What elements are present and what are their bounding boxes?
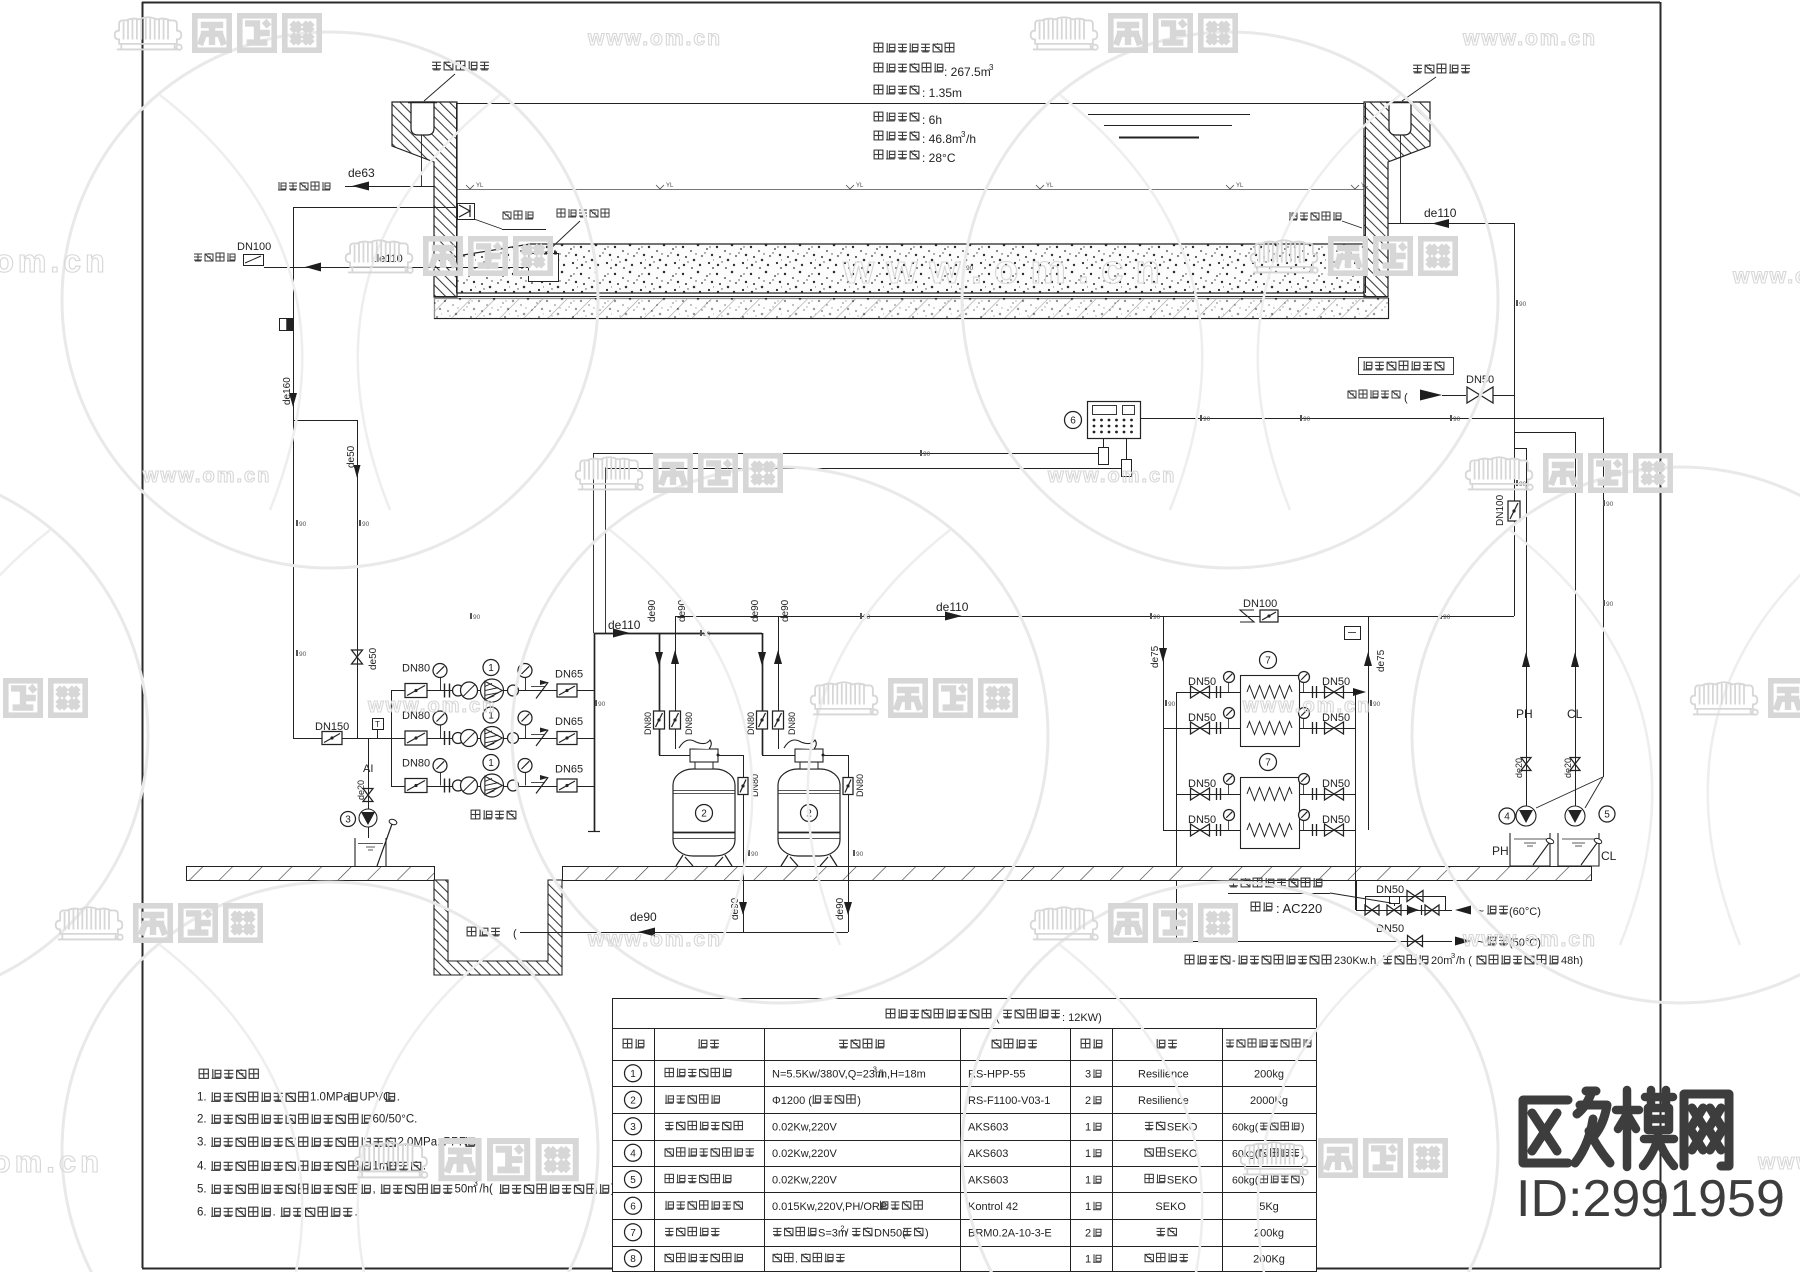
svg-text:90: 90 (1153, 614, 1161, 621)
svg-text:YL: YL (1236, 183, 1244, 189)
svg-text:90: 90 (1606, 501, 1614, 508)
water ripple marks (1088, 114, 1250, 116)
dosing point AI / de20 (368, 738, 370, 810)
PH solution tank (1510, 833, 1550, 866)
CL dosing riser (1575, 432, 1577, 806)
solenoid label (1229, 878, 1322, 887)
svg-text:0.02Kw,220V: 0.02Kw,220V (772, 1174, 837, 1186)
svg-text:www.om.cn: www.om.cn (1242, 695, 1371, 717)
svg-text:SEKO: SEKO (1155, 1201, 1186, 1213)
svg-text:.: . (397, 1091, 400, 1103)
svg-text:2: 2 (1085, 1227, 1091, 1239)
svg-text:1: 1 (1085, 1253, 1091, 1265)
blow-off outlet box on left wall (458, 204, 475, 220)
svg-text:DN50: DN50 (1466, 374, 1494, 386)
svg-text:(: ( (1404, 392, 1408, 404)
svg-text:DN80: DN80 (402, 663, 430, 675)
filter 1 supply pipe de90 (659, 633, 661, 755)
HX secondary manifolds (1163, 616, 1165, 830)
svg-text:www.om.cn: www.om.cn (587, 928, 722, 951)
circulation pump row 1 (391, 690, 594, 692)
svg-text:www.om.cn: www.om.cn (142, 465, 271, 487)
sand filter tank 2 (778, 769, 840, 856)
main suction line DN150 (293, 738, 391, 740)
left gutter drain stub (421, 135, 423, 186)
svg-text:DN50: DN50 (1322, 814, 1350, 826)
svg-text:3: 3 (345, 815, 351, 826)
svg-text:90: 90 (1519, 301, 1527, 308)
svg-text:de90: de90 (630, 910, 657, 924)
filter 1 backwash drain pipe (718, 755, 743, 757)
filter 1 return pipe de90 (675, 616, 677, 749)
pool drain pipe to sump y=207 (293, 207, 457, 209)
municipal supply riser to pool inlet (1514, 223, 1516, 616)
sump pit label (467, 927, 500, 936)
municipal water inlet (1348, 390, 1400, 398)
sand filter tank 1 (673, 769, 735, 856)
svg-text:/h,H=18m: /h,H=18m (878, 1068, 926, 1080)
pool bottom return pipe y=267 (264, 267, 528, 269)
svg-text:90: 90 (362, 521, 370, 528)
HX row valves DN50 at y=830 (1163, 830, 1240, 832)
svg-text:90: 90 (1443, 614, 1451, 621)
machine room floor slab left segment (187, 867, 435, 881)
svg-text:): ) (1301, 1174, 1305, 1186)
svg-text:: 46.8m: : 46.8m (922, 132, 962, 146)
svg-text:AKS603: AKS603 (968, 1121, 1008, 1133)
primary hot water supply/return through floor (1356, 880, 1358, 910)
big OMU logo glyph ou (1523, 1091, 1610, 1163)
svg-text:N=5.5Kw/380V,Q=23m: N=5.5Kw/380V,Q=23m (772, 1068, 884, 1080)
controller sensor probes (1103, 438, 1105, 447)
svg-text:3.: 3. (197, 1136, 207, 1148)
svg-text:1: 1 (488, 758, 494, 769)
svg-text:DN65: DN65 (555, 716, 583, 728)
svg-text:48h): 48h) (1561, 955, 1583, 967)
svg-text:90: 90 (1606, 601, 1614, 608)
overflow return label left (432, 61, 489, 70)
svg-text:de90: de90 (677, 599, 688, 622)
svg-text:0.015Kw,220V,PH/ORP: 0.015Kw,220V,PH/ORP (772, 1201, 887, 1213)
svg-text:1.0MPa: 1.0MPa (310, 1091, 350, 1103)
equipment table frame (612, 999, 1317, 1272)
branch to de50 riser (293, 420, 357, 422)
pool right corner block with overflow gutter (1364, 102, 1430, 297)
watermark row 5 (56, 905, 261, 940)
svg-text:1.: 1. (197, 1091, 207, 1103)
svg-text:): ) (925, 1227, 929, 1239)
pool inner wall lines (456, 103, 458, 293)
svg-text:de110: de110 (936, 600, 969, 614)
svg-text:7: 7 (1265, 758, 1271, 769)
svg-text:1: 1 (488, 663, 494, 674)
filter 2 DN80 valves on risers (757, 711, 768, 729)
svg-text:www.om.cn: www.om.cn (1047, 465, 1176, 487)
svg-text:/h(: /h( (479, 1183, 493, 1195)
svg-text:: 28°C: : 28°C (922, 151, 956, 165)
svg-text:90: 90 (1168, 701, 1176, 708)
svg-text:90: 90 (1203, 416, 1211, 423)
svg-text:0.02Kw,220V: 0.02Kw,220V (772, 1121, 837, 1133)
svg-text:www.om.cn: www.om.cn (367, 695, 496, 717)
municipal drain line de63 (345, 186, 434, 188)
svg-text:: 6h: : 6h (922, 113, 942, 127)
sump drain line de90 (520, 932, 848, 934)
flocculant tank (355, 838, 386, 867)
svg-text:,: , (372, 1183, 375, 1195)
blow-off label (474, 219, 502, 229)
table title (886, 1009, 991, 1018)
table headers (623, 1039, 644, 1048)
svg-text:de63: de63 (348, 166, 375, 180)
svg-text:20m: 20m (1431, 955, 1452, 967)
svg-text:www.om.cn: www.om.cn (1462, 27, 1597, 50)
svg-text:T: T (375, 720, 380, 729)
drawing border frame (142, 2, 1660, 4)
hot water outlet line 50C (1176, 941, 1452, 943)
svg-text:AKS603: AKS603 (968, 1174, 1008, 1186)
heat supply requirement note (1185, 955, 1230, 964)
svg-text:www.om.cn: www.om.cn (0, 1144, 103, 1179)
water quality controller (6) (1088, 402, 1141, 439)
thermometer T (377, 728, 379, 738)
svg-text:90: 90 (598, 701, 606, 708)
instrument on riser (1345, 627, 1361, 640)
tank agitator stick (377, 824, 392, 866)
pool floor speckled concrete (457, 244, 1364, 293)
svg-text:2: 2 (630, 1095, 636, 1106)
design notes heading (199, 1069, 258, 1078)
DN100 strainer on riser (1508, 501, 1520, 521)
svg-text:de50: de50 (368, 647, 379, 670)
svg-text:de50: de50 (346, 445, 357, 468)
DN100 check valve on return (1240, 610, 1254, 622)
svg-text:90: 90 (299, 651, 307, 658)
svg-text:DN100: DN100 (1243, 598, 1277, 610)
table rows (625, 1065, 642, 1082)
svg-text:DN80: DN80 (402, 758, 430, 770)
svg-text:YL: YL (1046, 183, 1054, 189)
pool top edge line (457, 103, 1364, 105)
svg-text:4.: 4. (197, 1160, 207, 1172)
overflow return label right (1413, 64, 1470, 73)
svg-text:(: ( (513, 928, 517, 940)
svg-text:DN80: DN80 (855, 774, 865, 797)
filter 2 return pipe de90 (778, 616, 780, 749)
svg-text:DN80: DN80 (684, 712, 694, 735)
svg-text:4: 4 (1504, 812, 1510, 823)
svg-text:(60°C): (60°C) (1509, 906, 1541, 918)
svg-text:: 267.5m: : 267.5m (944, 65, 991, 79)
svg-text:3: 3 (873, 1064, 877, 1073)
svg-text:6: 6 (630, 1201, 636, 1212)
svg-text:DN50(: DN50( (874, 1227, 906, 1239)
backflow preventer label box (1359, 358, 1454, 375)
svg-text:RS-HPP-55: RS-HPP-55 (968, 1068, 1025, 1080)
pool floor bottom return box (529, 254, 559, 282)
right gutter drain stub (1400, 135, 1402, 223)
circulation pump row 2 (391, 738, 594, 740)
PH dosing riser (1526, 448, 1528, 806)
HX primary outlet risers (1355, 692, 1357, 910)
svg-text:Kontrol 42: Kontrol 42 (968, 1201, 1018, 1213)
svg-text:DN50: DN50 (1188, 712, 1216, 724)
svg-text:: 1.35m: : 1.35m (922, 86, 962, 100)
HX row valves DN50 at y=728 (1163, 728, 1240, 730)
svg-text:www.om.cn: www.om.cn (587, 27, 722, 50)
svg-text:/h: /h (966, 132, 976, 146)
big OMU logo glyph wang (1684, 1094, 1729, 1166)
svg-text:60kg(: 60kg( (1232, 1121, 1259, 1133)
svg-text:2: 2 (1085, 1095, 1091, 1107)
svg-text:2: 2 (840, 1223, 844, 1232)
svg-text:90: 90 (1373, 701, 1381, 708)
svg-text:YL: YL (1361, 183, 1369, 189)
svg-text:1: 1 (1085, 1174, 1091, 1186)
svg-text:DN50: DN50 (1322, 676, 1350, 688)
svg-text:60/50°C.: 60/50°C. (372, 1113, 417, 1125)
svg-text:www.om.cn: www.om.cn (1462, 928, 1597, 951)
svg-text:de90: de90 (750, 599, 761, 622)
pool under-slab lines (434, 296, 1388, 298)
svg-text:8: 8 (630, 1254, 636, 1265)
machine room floor slab right segment (563, 867, 1592, 881)
svg-text:): ) (857, 1095, 861, 1107)
svg-text:de90: de90 (647, 599, 658, 622)
svg-text:1: 1 (630, 1069, 636, 1080)
discharge manifold (594, 633, 596, 831)
slab speckle dots overlay (434, 298, 1388, 318)
svg-text:: 12KW): : 12KW) (1062, 1012, 1102, 1024)
svg-text:DN50: DN50 (1376, 884, 1404, 896)
svg-text:DN100: DN100 (237, 241, 271, 253)
svg-text:3: 3 (630, 1122, 636, 1133)
HX row valves DN50 at y=794 (1176, 794, 1240, 796)
svg-text:DN80: DN80 (787, 712, 797, 735)
sump pit (434, 880, 562, 975)
flocculant dosing pump (3) (359, 809, 377, 827)
svg-text:1: 1 (1085, 1121, 1091, 1133)
heat exchanger group 1 (7) (1241, 676, 1300, 747)
svg-text:2000Kg: 2000Kg (1250, 1095, 1288, 1107)
svg-text:DN50: DN50 (1188, 814, 1216, 826)
svg-text:YL: YL (856, 183, 864, 189)
sensor sampling lines (593, 453, 1098, 455)
svg-text:.: . (795, 1253, 798, 1265)
svg-text:CL: CL (1567, 707, 1583, 721)
riser fitting (dark box) (280, 319, 294, 331)
svg-text:YL: YL (476, 183, 484, 189)
tiny pipe size marks (296, 264, 1614, 858)
svg-text:PH: PH (1492, 844, 1509, 858)
svg-text:1: 1 (1085, 1201, 1091, 1213)
svg-text:BRM0.2A-10-3-E: BRM0.2A-10-3-E (968, 1227, 1052, 1239)
svg-text:5.: 5. (197, 1183, 207, 1195)
HX row valves DN50 at y=692 (1176, 692, 1240, 694)
svg-text:1: 1 (1085, 1148, 1091, 1160)
svg-text:3: 3 (989, 63, 994, 72)
controller signal line (1140, 418, 1603, 420)
big OMU logo glyph mo (1616, 1090, 1674, 1167)
de50 riser (357, 420, 359, 738)
heat exchanger group 2 (7) (1241, 778, 1300, 849)
svg-text:DN80: DN80 (746, 712, 756, 735)
svg-text:): ) (1301, 1121, 1305, 1133)
filter 1 DN80 valves on risers (654, 711, 665, 729)
svg-text:SEKO: SEKO (1167, 1174, 1198, 1186)
svg-text:.: . (272, 1206, 275, 1218)
svg-text:Resilience: Resilience (1138, 1068, 1189, 1080)
pool left corner block with overflow gutter (392, 102, 457, 297)
svg-text:2.: 2. (197, 1113, 207, 1125)
svg-text:5: 5 (1604, 810, 1610, 821)
de50 drain valve (352, 650, 363, 664)
svg-text:de110: de110 (608, 618, 641, 632)
svg-text:60kg(: 60kg( (1232, 1174, 1259, 1186)
svg-text:de110: de110 (1424, 206, 1457, 220)
svg-text:90: 90 (856, 851, 864, 858)
svg-text:7: 7 (630, 1228, 636, 1239)
PH dosing pump (4) (1499, 808, 1515, 824)
svg-text:www.om.cn: www.om.cn (842, 248, 1172, 292)
svg-text:90: 90 (923, 451, 931, 458)
duty/standby label (471, 810, 516, 819)
svg-text:90: 90 (299, 521, 307, 528)
svg-text:200kg: 200kg (1254, 1068, 1284, 1080)
svg-text:DN65: DN65 (555, 764, 583, 776)
pool spec text block (874, 43, 907, 52)
svg-text:5Kg: 5Kg (1259, 1201, 1279, 1213)
circulation pump row 3 (391, 786, 594, 788)
svg-text:200Kg: 200Kg (1253, 1253, 1285, 1265)
de110 return line to pool right wall (1388, 223, 1514, 225)
svg-text:Φ1200 (: Φ1200 ( (772, 1095, 812, 1107)
svg-text:3: 3 (1451, 951, 1455, 960)
svg-text:AI: AI (363, 763, 373, 775)
watermark row 4 (0, 680, 86, 715)
svg-text:3: 3 (1085, 1068, 1091, 1080)
svg-text:DN50: DN50 (1188, 676, 1216, 688)
svg-text:de75: de75 (1376, 649, 1387, 672)
svg-text:/h (: /h ( (1456, 955, 1472, 967)
svg-text:www.om.cn: www.om.cn (1732, 265, 1800, 288)
pool bottom slab hatch (435, 299, 1389, 319)
CL dosing pump (5) (1565, 806, 1585, 826)
svg-text:DN80: DN80 (643, 712, 653, 735)
hot water inlet line 60C (1356, 910, 1445, 912)
watermark row 1 (115, 15, 320, 50)
svg-text:5: 5 (630, 1175, 636, 1186)
svg-text:7: 7 (1265, 656, 1271, 667)
dosing control drop line (1603, 418, 1605, 778)
svg-text:90: 90 (751, 851, 759, 858)
PH riser top connection (1514, 448, 1526, 450)
svg-text:0.02Kw,220V: 0.02Kw,220V (772, 1148, 837, 1160)
svg-text:DN50: DN50 (1188, 778, 1216, 790)
svg-text:90: 90 (1453, 416, 1461, 423)
pool bottom return label (557, 209, 609, 217)
svg-text:2: 2 (701, 809, 707, 820)
svg-text:SEKO: SEKO (1167, 1148, 1198, 1160)
svg-text:230Kw.h,: 230Kw.h, (1334, 955, 1379, 967)
svg-text:RS-F1100-V03-1: RS-F1100-V03-1 (968, 1095, 1050, 1107)
suction manifold (391, 690, 393, 786)
water line YL with ticks (457, 189, 1364, 191)
svg-text:de90: de90 (835, 897, 846, 920)
CL riser top connection (1514, 432, 1575, 434)
svg-text:DN65: DN65 (555, 669, 583, 681)
svg-text:6: 6 (1070, 416, 1076, 427)
pump discharge line de110 (594, 633, 762, 635)
left riser de160 from pool (293, 207, 295, 738)
bypass (1365, 896, 1367, 910)
watermark circles (62, 32, 598, 568)
svg-text:YL: YL (666, 183, 674, 189)
svg-text:ID:2991959: ID:2991959 (1516, 1170, 1785, 1228)
wall inlet label right (pool wall supply) (1289, 212, 1341, 220)
svg-text:: AC220: : AC220 (1276, 901, 1322, 916)
svg-text:de90: de90 (780, 599, 791, 622)
filter 2 backwash drain pipe (823, 755, 848, 757)
svg-text:AKS603: AKS603 (968, 1148, 1008, 1160)
CL solution tank (1558, 833, 1599, 866)
svg-text:www.om.cn: www.om.cn (0, 243, 109, 279)
svg-text:DN100: DN100 (1495, 494, 1506, 526)
svg-text:90: 90 (473, 614, 481, 621)
svg-text:-: - (1232, 955, 1236, 967)
svg-text:DN50: DN50 (1322, 778, 1350, 790)
filter 2 supply pipe de90 (762, 633, 764, 755)
svg-text:6.: 6. (197, 1206, 207, 1218)
filtered water return line de110 (675, 616, 1514, 618)
svg-text:90: 90 (1303, 416, 1311, 423)
svg-text:CL: CL (1601, 849, 1617, 863)
svg-text:4: 4 (630, 1148, 636, 1159)
dosing control leaders (1536, 777, 1603, 808)
svg-text:PH: PH (1516, 707, 1533, 721)
